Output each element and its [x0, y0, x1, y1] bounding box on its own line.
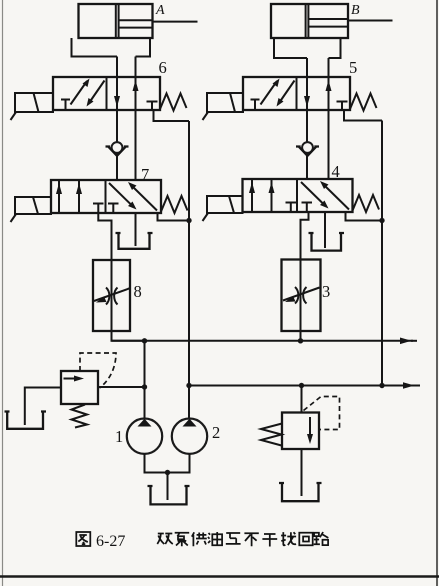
pump 2 output line (line 2 right)	[189, 385, 414, 387]
check valve (left)	[106, 142, 129, 156]
svg-text:A: A	[155, 3, 165, 18]
valve 6 straight path arrow up	[135, 77, 137, 110]
valve 7 blocked port T left	[93, 204, 104, 214]
wire valve 7 left out step to throttle 8	[98, 213, 111, 260]
valve 5 straight path arrow down	[306, 77, 308, 110]
caption character 图	[76, 532, 90, 546]
svg-text:2: 2	[212, 423, 220, 442]
relief valve right spring	[261, 424, 282, 446]
valve 6 solenoid lead	[11, 112, 17, 120]
valve 5 blocked port T left	[251, 100, 260, 111]
svg-text:7: 7	[141, 165, 149, 184]
valve 7 position divider	[105, 180, 107, 213]
valve 7 crossed path arrow 2	[132, 186, 158, 211]
valve 6 position divider	[106, 77, 108, 110]
relief valve left body	[61, 353, 116, 428]
valve 4 straight path arrow up 1	[251, 179, 253, 212]
valve 4 position divider	[296, 179, 298, 212]
valve 4 body	[203, 179, 380, 221]
relief valve right body	[261, 397, 340, 450]
supply line 1 (pump 1)	[112, 340, 414, 342]
valve 5 return spring	[350, 94, 377, 111]
valve 4 blocked port T left	[286, 203, 297, 213]
junction valve 7 drain / riser	[186, 218, 191, 223]
valve 6 return spring	[160, 94, 187, 111]
valve 7 crossed path arrow 1	[109, 183, 133, 207]
cylinder A body	[79, 4, 198, 38]
wire cylinder A right port to valve 6	[135, 57, 137, 78]
valve 4 blocked port T right	[302, 203, 313, 213]
relief valve left spring	[72, 405, 88, 428]
cylinder A rod	[119, 19, 153, 21]
svg-text:6: 6	[159, 58, 167, 77]
pump 1 riser	[144, 341, 146, 419]
valve 4 straight path arrow up 2	[271, 179, 273, 212]
wire suction to tank	[167, 473, 169, 501]
caption character 供	[192, 532, 207, 546]
cylinder A port bracket	[72, 38, 151, 57]
relief valve right internal arrow	[309, 417, 311, 436]
wire valve 4 tank pipe	[324, 212, 326, 248]
wire valve 7 tank pipe	[135, 213, 137, 246]
check valve (right)	[296, 142, 319, 156]
tank under valve 4	[309, 233, 345, 251]
wire relief left to tank	[25, 388, 61, 426]
valve 6 solenoid box	[15, 93, 53, 112]
relief valve left pilot dashed	[80, 353, 116, 388]
valve 6 crossed path arrow 2	[89, 81, 105, 104]
throttle valve 3	[282, 260, 321, 332]
valve 4 crossed path arrow 1	[301, 182, 325, 206]
valve 6 straight path arrow down	[116, 77, 118, 110]
valve 5 solenoid box	[207, 93, 243, 112]
svg-text:8: 8	[134, 282, 142, 301]
wire valve 6 P-port step to pump 2 riser	[154, 110, 190, 121]
throttle valve 8	[93, 260, 131, 331]
valve 4 return spring	[353, 195, 380, 212]
svg-text:4: 4	[332, 162, 340, 181]
cylinder B rod extension	[348, 20, 393, 22]
wire cylinder A left port to valve 6	[116, 57, 118, 78]
page bottom rule	[0, 575, 439, 577]
junction valve 4 drain / riser	[379, 218, 384, 223]
valve 7 solenoid box	[15, 197, 51, 214]
page left border	[2, 0, 4, 586]
wire throttle 8 to supply line 1	[112, 331, 145, 341]
caption character 干	[262, 534, 277, 547]
svg-text:6-27: 6-27	[96, 533, 125, 550]
cylinder B port bracket	[274, 38, 341, 58]
caption character 油	[208, 532, 222, 545]
valve 7 body	[11, 180, 188, 222]
wire valve 5 right port down	[328, 110, 330, 179]
cylinder A rod extension	[153, 21, 198, 23]
valve 5 crossed path arrow 2	[279, 81, 295, 104]
wire valve 4 drain step to right riser	[346, 212, 383, 221]
valve 6 blocked port T left	[61, 100, 70, 111]
pump 1	[127, 419, 162, 454]
pump 2	[172, 419, 207, 454]
svg-text:5: 5	[349, 58, 357, 77]
valve 5 blocked port T right	[337, 102, 348, 111]
valve 7 solenoid lead	[11, 214, 17, 222]
svg-text:1: 1	[115, 427, 123, 446]
wire relief left to line 2	[98, 386, 145, 388]
pump suction lines	[145, 454, 190, 473]
valve 7 straight path arrow up 2	[78, 180, 80, 213]
junction right relief valve / line 2	[299, 383, 304, 388]
wire cylinder B right port to valve 5	[328, 58, 330, 77]
line 1 arrowhead	[400, 338, 412, 345]
valve 4 crossed path arrow 2	[324, 185, 350, 210]
relief valve right pilot dashed	[304, 397, 340, 430]
right riser from valves 5 and 4	[381, 121, 383, 386]
caption character 回	[299, 533, 312, 546]
valve 5 crossed path arrow 1	[261, 81, 278, 105]
valve 4 solenoid lead	[203, 213, 209, 221]
cylinder B piston	[305, 4, 307, 38]
cylinder B body	[271, 4, 393, 38]
caption character 不	[244, 533, 258, 546]
wire line 2 to relief valve right	[301, 386, 303, 413]
wire cylinder B left port to valve 5	[306, 58, 308, 77]
valve 6 body	[11, 77, 187, 120]
wire valve 6 right port down	[135, 110, 137, 180]
junction relief line / pump 1 riser	[142, 384, 147, 389]
pump 2 riser (valve 6/7 supply)	[188, 121, 190, 419]
valve 5 body	[203, 77, 377, 120]
caption character 泵	[175, 533, 190, 547]
tank left	[5, 412, 47, 429]
svg-text:B: B	[351, 3, 360, 18]
caption character 扰	[281, 532, 296, 545]
caption character 互	[226, 533, 241, 544]
wire throttle 3 to supply line 1	[300, 331, 302, 341]
valve 6 crossed path arrow 1	[71, 81, 88, 105]
wire valve 4 left out step to throttle 3	[301, 212, 309, 260]
valve 5 position divider	[296, 77, 298, 110]
junction riser / pump 2 output line	[186, 383, 191, 388]
junction suction	[165, 470, 170, 475]
junction right riser / pump2 line	[379, 383, 384, 388]
valve 5 solenoid lead	[203, 112, 209, 120]
line 2 arrowhead	[403, 382, 415, 389]
caption character 双	[157, 534, 173, 545]
caption character 路	[314, 532, 329, 545]
junction throttle 3 / line 1	[298, 338, 303, 343]
valve 7 blocked port T right	[108, 204, 119, 214]
cylinder A piston	[115, 4, 117, 38]
page right border	[436, 0, 438, 586]
tank right	[279, 483, 322, 501]
wire valve 5 P-port step to right riser	[344, 110, 382, 121]
wire relief right to tank	[301, 449, 303, 496]
valve 6 blocked port T right	[147, 102, 158, 111]
wire valve 5 left port down	[306, 110, 308, 179]
tank under valve 7	[116, 233, 153, 249]
valve 5 straight path arrow up	[328, 77, 330, 110]
valve 7 return spring	[161, 196, 188, 213]
valve 4 solenoid box	[207, 196, 243, 213]
cylinder B rod	[308, 18, 348, 20]
valve 7 straight path arrow up 1	[58, 180, 60, 213]
tank bottom center	[148, 486, 190, 504]
wire valve 6 left port down	[116, 110, 118, 180]
relief valve left internal arrow	[64, 378, 77, 380]
svg-text:3: 3	[322, 282, 330, 301]
wire valve 7 drain step to pump 2 riser	[158, 213, 190, 221]
junction pump1 riser / line 1	[142, 338, 147, 343]
